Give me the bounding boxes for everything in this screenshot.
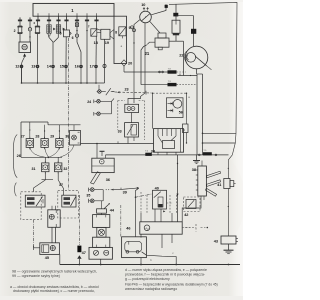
relay 45a	[48, 210, 60, 228]
wire stubs	[157, 152, 159, 155]
fuse T5	[203, 152, 212, 155]
lever 33	[91, 172, 101, 184]
ground symbol	[196, 155, 198, 160]
dashed switch box 37b	[58, 190, 79, 218]
plain connector	[103, 64, 106, 67]
cable band middle	[206, 180, 220, 187]
svg-text:21: 21	[145, 51, 150, 56]
svg-text:33: 33	[118, 130, 122, 134]
dash-dot wire center	[78, 195, 80, 245]
wire	[127, 137, 129, 144]
cable band lower	[205, 188, 216, 196]
wire coil arm	[169, 40, 184, 42]
svg-text:56: 56	[179, 111, 183, 115]
cable band upper	[206, 171, 220, 178]
wire	[131, 113, 133, 123]
svg-text:39: 39	[123, 190, 127, 194]
horn 19 body	[101, 29, 110, 39]
bracket 26	[13, 135, 17, 178]
wire	[42, 178, 54, 180]
dash-dot harness wire	[68, 38, 70, 190]
heater unit 39a	[154, 129, 184, 153]
svg-text:38: 38	[192, 168, 196, 172]
wire to right rail lower	[203, 142, 236, 144]
wire to right rail upper	[203, 132, 237, 134]
blower switch 33b	[125, 123, 139, 137]
wire top border	[169, 2, 237, 155]
wire to wiper motor	[136, 188, 139, 237]
switch 37 left	[25, 195, 45, 207]
wire	[100, 259, 102, 264]
svg-text:g — podzespół elektroniczny: g — podzespół elektroniczny	[125, 277, 170, 281]
wire	[19, 20, 21, 26]
dashed box 42	[184, 197, 201, 212]
svg-text:5: 5	[60, 31, 62, 35]
svg-text:35: 35	[86, 194, 90, 198]
svg-text:6: 6	[72, 36, 74, 40]
fuse box unit 1	[33, 4, 114, 17]
svg-text:30: 30	[65, 135, 69, 139]
wire bus left end	[59, 254, 61, 264]
washer unit 47	[89, 247, 112, 259]
flasher 30 box	[70, 131, 81, 146]
arrow on wire	[176, 194, 178, 196]
paper mottling	[0, 10, 245, 280]
blower motor 33a	[125, 104, 139, 112]
wire	[58, 20, 60, 24]
radio unit 33	[92, 158, 114, 172]
svg-text:9: 9	[129, 26, 131, 30]
blower dashed outline	[118, 100, 125, 102]
svg-text:drukowany płytki montażowej, c: drukowany płytki montażowej, c — numer p…	[13, 289, 95, 293]
fuse 2	[18, 26, 22, 34]
connector pair 5a	[56, 25, 58, 33]
ignition switch 38	[198, 166, 207, 196]
terminal strip wire	[178, 75, 198, 77]
wiper motor 39b	[122, 237, 147, 258]
switch 5	[64, 30, 70, 37]
distributor 22	[185, 46, 208, 69]
wire	[66, 20, 68, 30]
lamp 3	[28, 28, 31, 31]
supply terminals row	[19, 17, 21, 20]
svg-text:31: 31	[32, 167, 36, 171]
wire row c	[81, 143, 154, 145]
wire	[151, 4, 166, 15]
regulator 7	[91, 29, 97, 36]
fuse T6 34	[145, 153, 152, 156]
ignition coil 21	[158, 33, 166, 38]
wire	[37, 20, 39, 26]
relay 28	[41, 139, 48, 148]
wire	[142, 252, 177, 265]
svg-text:8: 8	[115, 30, 117, 34]
bracket lower	[15, 183, 17, 197]
wire drops	[29, 122, 31, 139]
wire	[140, 234, 142, 237]
ground bus bottom	[60, 264, 240, 266]
svg-text:2: 2	[14, 29, 16, 33]
wire	[96, 20, 98, 28]
wire right rail lower	[228, 155, 232, 179]
svg-text:wzmacniacz nadajnika radiowego: wzmacniacz nadajnika radiowego	[125, 287, 177, 291]
dashed switch box 37a	[21, 192, 41, 220]
wire distributor feed	[176, 15, 194, 17]
svg-text:19: 19	[105, 41, 109, 45]
wire	[196, 69, 198, 74]
dash link	[106, 189, 107, 190]
svg-text:46: 46	[126, 226, 130, 230]
svg-text:47: 47	[82, 251, 86, 255]
dash-dot wire ladder right	[120, 205, 122, 237]
instrument panel 8 frame	[114, 16, 127, 63]
svg-text:18: 18	[94, 41, 98, 45]
svg-text:23: 23	[125, 88, 129, 92]
rheostat 8	[119, 27, 126, 36]
wire junction Y	[48, 20, 50, 24]
svg-text:10: 10	[141, 3, 145, 7]
connector pair 4a	[47, 25, 49, 33]
antenna symbol	[96, 144, 98, 159]
switch 42	[186, 200, 196, 209]
relay bank frame	[21, 121, 48, 123]
svg-text:99 — ogrzewanie szyby tylnej: 99 — ogrzewanie szyby tylnej	[12, 274, 60, 278]
svg-text:36: 36	[106, 178, 110, 182]
wire	[86, 20, 88, 83]
svg-text:45: 45	[45, 256, 49, 260]
junction blob	[165, 5, 168, 8]
relay 29	[56, 139, 63, 148]
svg-text:32: 32	[63, 167, 67, 171]
svg-text:29: 29	[50, 135, 54, 139]
switch 37 right	[62, 195, 76, 207]
dash-dot lead to 40	[136, 194, 153, 197]
dashed tail	[182, 227, 190, 229]
gauge unit 6a	[19, 42, 31, 53]
svg-text:28: 28	[35, 135, 39, 139]
svg-text:27: 27	[21, 135, 25, 139]
relay 27	[26, 139, 33, 148]
connector 20 diamond	[121, 60, 127, 66]
switch 44	[100, 201, 102, 209]
dashed drops 2	[146, 195, 148, 213]
wire stubs to unit 46	[140, 212, 142, 221]
wire right rail to resistor	[227, 189, 229, 237]
relay 32	[55, 163, 62, 172]
dash-dot wire	[33, 220, 35, 248]
fuse T9	[168, 83, 177, 86]
svg-text:a — obwód drukowany zestawu ws: a — obwód drukowany zestawu wskaźników, …	[10, 285, 99, 289]
svg-text:20: 20	[128, 62, 132, 66]
svg-text:98 — ogrzewanie zewnętrznych l: 98 — ogrzewanie zewnętrznych lusterek ws…	[12, 269, 97, 273]
paper background	[0, 0, 243, 300]
ground	[228, 244, 230, 250]
svg-text:12: 12	[15, 65, 19, 69]
relay 31	[42, 163, 49, 172]
svg-text:przewodów, f — bezpiecznik nr: przewodów, f — bezpiecznik nr 6 powoduje…	[125, 273, 206, 277]
wire	[105, 155, 107, 158]
ground arrow	[23, 53, 26, 56]
svg-text:d — numer styku złącza przewod: d — numer styku złącza przewodów, e — po…	[125, 268, 207, 272]
wire gauge to coil	[150, 21, 160, 33]
wire	[177, 155, 179, 222]
printed circuit bus b	[196, 74, 198, 155]
svg-text:17: 17	[90, 65, 94, 69]
intermittent relay 40	[153, 190, 167, 209]
dashes right of 40	[167, 202, 174, 204]
washer pump ladder	[100, 213, 102, 214]
fuse 4	[36, 26, 40, 34]
wire	[182, 196, 201, 222]
wiper control unit 46	[140, 222, 182, 234]
condenser 11 chain	[175, 4, 177, 20]
connector 41	[224, 179, 230, 189]
svg-text:24: 24	[87, 100, 91, 104]
svg-text:15: 15	[60, 65, 64, 69]
svg-text:41: 41	[217, 183, 221, 187]
wire pair down	[51, 227, 53, 243]
wire	[34, 180, 46, 192]
wire 39 link	[121, 188, 139, 190]
inline connector blob	[77, 246, 81, 253]
fuse T8	[168, 70, 177, 73]
regulator relay 36	[167, 98, 184, 118]
resistor 43	[221, 236, 236, 244]
wire gauge left drop	[134, 20, 140, 103]
svg-text:43: 43	[214, 239, 218, 243]
main feed wire row	[106, 154, 229, 156]
wire gauge right drop	[128, 23, 145, 105]
svg-text:Fiat-P4S — bezpieczniki w wypo: Fiat-P4S — bezpieczniki w wyposażeniu do…	[125, 282, 218, 286]
wire fuse line f	[123, 66, 125, 72]
dash link 23	[115, 92, 152, 93]
ground bus	[22, 82, 105, 84]
wire	[51, 206, 53, 210]
switch cluster 24a	[98, 85, 100, 90]
wire coil feed	[141, 45, 147, 85]
heater motor 45	[40, 243, 60, 255]
svg-text:37: 37	[59, 183, 63, 187]
svg-text:22: 22	[179, 52, 184, 57]
wire	[104, 39, 106, 83]
switch 6 contact	[75, 23, 78, 27]
svg-text:13: 13	[31, 65, 35, 69]
wire	[29, 20, 31, 27]
wire	[77, 37, 81, 64]
sensor 6	[75, 34, 78, 37]
connector g	[186, 118, 188, 125]
dashed module outline a	[153, 92, 187, 94]
wire mesh	[21, 156, 62, 158]
dashed links	[185, 227, 196, 229]
svg-text:16: 16	[75, 65, 79, 69]
wire	[76, 20, 78, 22]
svg-text:26: 26	[17, 154, 21, 158]
svg-text:42: 42	[184, 213, 188, 217]
